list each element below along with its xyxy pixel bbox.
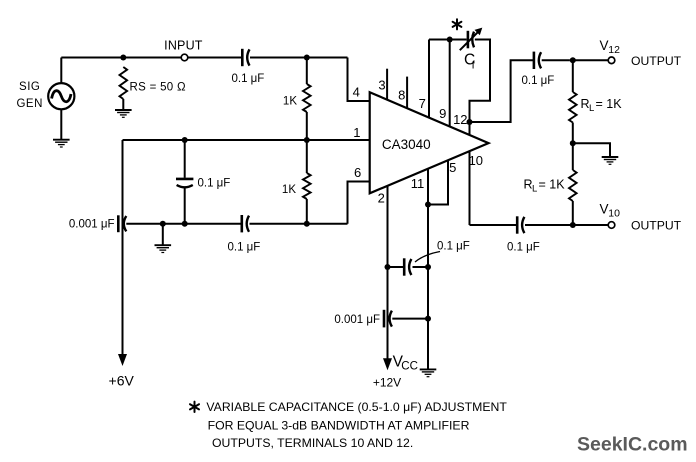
svg-text:RS = 50 Ω: RS = 50 Ω bbox=[130, 82, 186, 94]
svg-text:FOR EQUAL 3-dB BANDWIDTH AT AM: FOR EQUAL 3-dB BANDWIDTH AT AMPLIFIER bbox=[208, 419, 470, 433]
svg-text:SIG: SIG bbox=[19, 81, 40, 93]
svg-text:6: 6 bbox=[354, 165, 361, 180]
svg-text:L: L bbox=[589, 103, 594, 114]
svg-text:= 1K: = 1K bbox=[596, 97, 623, 111]
svg-text:2: 2 bbox=[378, 191, 385, 206]
svg-text:CC: CC bbox=[401, 361, 418, 373]
svg-text:12: 12 bbox=[608, 44, 620, 56]
svg-text:1K: 1K bbox=[282, 184, 296, 196]
svg-text:OUTPUT: OUTPUT bbox=[631, 219, 682, 233]
svg-text:10: 10 bbox=[608, 208, 620, 220]
svg-text:INPUT: INPUT bbox=[164, 39, 203, 53]
svg-text:3: 3 bbox=[378, 78, 385, 93]
svg-text:0.1 μF: 0.1 μF bbox=[507, 242, 540, 254]
svg-text:V: V bbox=[600, 38, 609, 53]
svg-text:0.1 μF: 0.1 μF bbox=[228, 241, 261, 253]
svg-text:OUTPUT: OUTPUT bbox=[631, 54, 682, 68]
svg-text:CA3040: CA3040 bbox=[382, 137, 431, 152]
svg-text:0.001 μF: 0.001 μF bbox=[69, 219, 115, 231]
svg-text:OUTPUTS, TERMINALS 10 AND 12.: OUTPUTS, TERMINALS 10 AND 12. bbox=[212, 436, 413, 450]
svg-text:L: L bbox=[532, 184, 537, 195]
svg-text:10: 10 bbox=[469, 153, 483, 168]
svg-text:= 1K: = 1K bbox=[539, 178, 566, 192]
svg-text:12: 12 bbox=[453, 112, 467, 127]
svg-text:4: 4 bbox=[353, 85, 360, 100]
svg-text:0.1 μF: 0.1 μF bbox=[437, 241, 470, 253]
svg-text:0.1 μF: 0.1 μF bbox=[198, 177, 231, 189]
svg-text:11: 11 bbox=[411, 176, 425, 191]
svg-text:0.001 μF: 0.001 μF bbox=[334, 314, 380, 326]
svg-text:VARIABLE CAPACITANCE (0.5-1.0: VARIABLE CAPACITANCE (0.5-1.0 μF) ADJUST… bbox=[206, 400, 507, 414]
svg-text:0.1 μF: 0.1 μF bbox=[522, 75, 555, 87]
svg-text:SeekIC.com: SeekIC.com bbox=[577, 434, 688, 456]
svg-text:1K: 1K bbox=[283, 96, 297, 108]
svg-text:8: 8 bbox=[398, 88, 405, 103]
svg-text:9: 9 bbox=[439, 106, 446, 121]
svg-text:GEN: GEN bbox=[16, 98, 42, 110]
svg-text:7: 7 bbox=[419, 96, 426, 111]
svg-text:V: V bbox=[600, 202, 609, 217]
svg-text:0.1 μF: 0.1 μF bbox=[232, 73, 265, 85]
svg-text:+12V: +12V bbox=[373, 375, 401, 389]
svg-text:5: 5 bbox=[449, 160, 456, 175]
svg-text:+6V: +6V bbox=[109, 373, 135, 389]
svg-text:1: 1 bbox=[353, 125, 360, 140]
